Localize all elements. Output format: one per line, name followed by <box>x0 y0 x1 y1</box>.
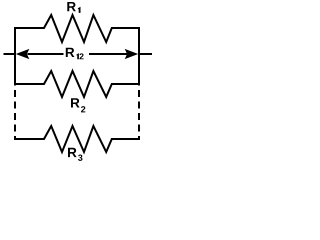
wire: left external lead stub <box>4 53 16 55</box>
wire: left rail dashed segment <box>14 90 16 140</box>
resistor R2 (middle branch wire + zigzag) <box>15 71 139 97</box>
label R1 <box>67 2 80 13</box>
arrowhead pointing left at left rail <box>16 49 29 59</box>
resistor R3 (bottom branch wire + zigzag) <box>15 126 139 152</box>
arrowhead pointing right at right rail <box>125 49 139 59</box>
wire: arrow shaft left of R12 label <box>28 53 64 55</box>
label R12 <box>66 48 84 60</box>
wire: left rail solid segment <box>14 27 16 86</box>
wire: right external lead stub <box>139 53 152 55</box>
wire: right rail dashed segment <box>138 90 140 140</box>
wire: arrow shaft right of R12 label <box>89 53 127 55</box>
resistor R1 (top branch wire + zigzag) <box>15 15 139 42</box>
label R2 <box>71 98 85 112</box>
label R3 <box>68 148 82 161</box>
wire: right rail solid segment <box>138 27 140 86</box>
